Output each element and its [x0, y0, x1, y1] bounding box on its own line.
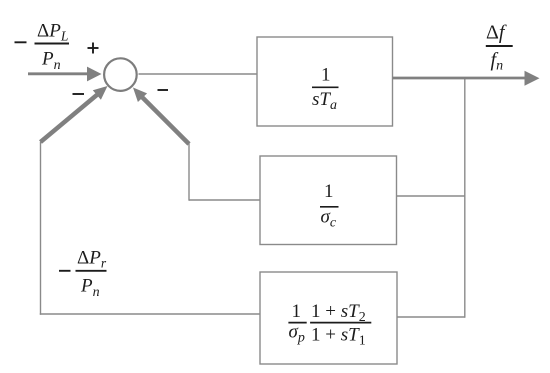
svg-text:Δf: Δf: [486, 22, 507, 44]
svg-text:1: 1: [324, 181, 334, 202]
svg-text:1 + sT1: 1 + sT1: [311, 325, 366, 349]
svg-text:1: 1: [321, 65, 331, 86]
svg-text:1: 1: [292, 301, 302, 322]
svg-text:1 + sT2: 1 + sT2: [311, 301, 366, 325]
